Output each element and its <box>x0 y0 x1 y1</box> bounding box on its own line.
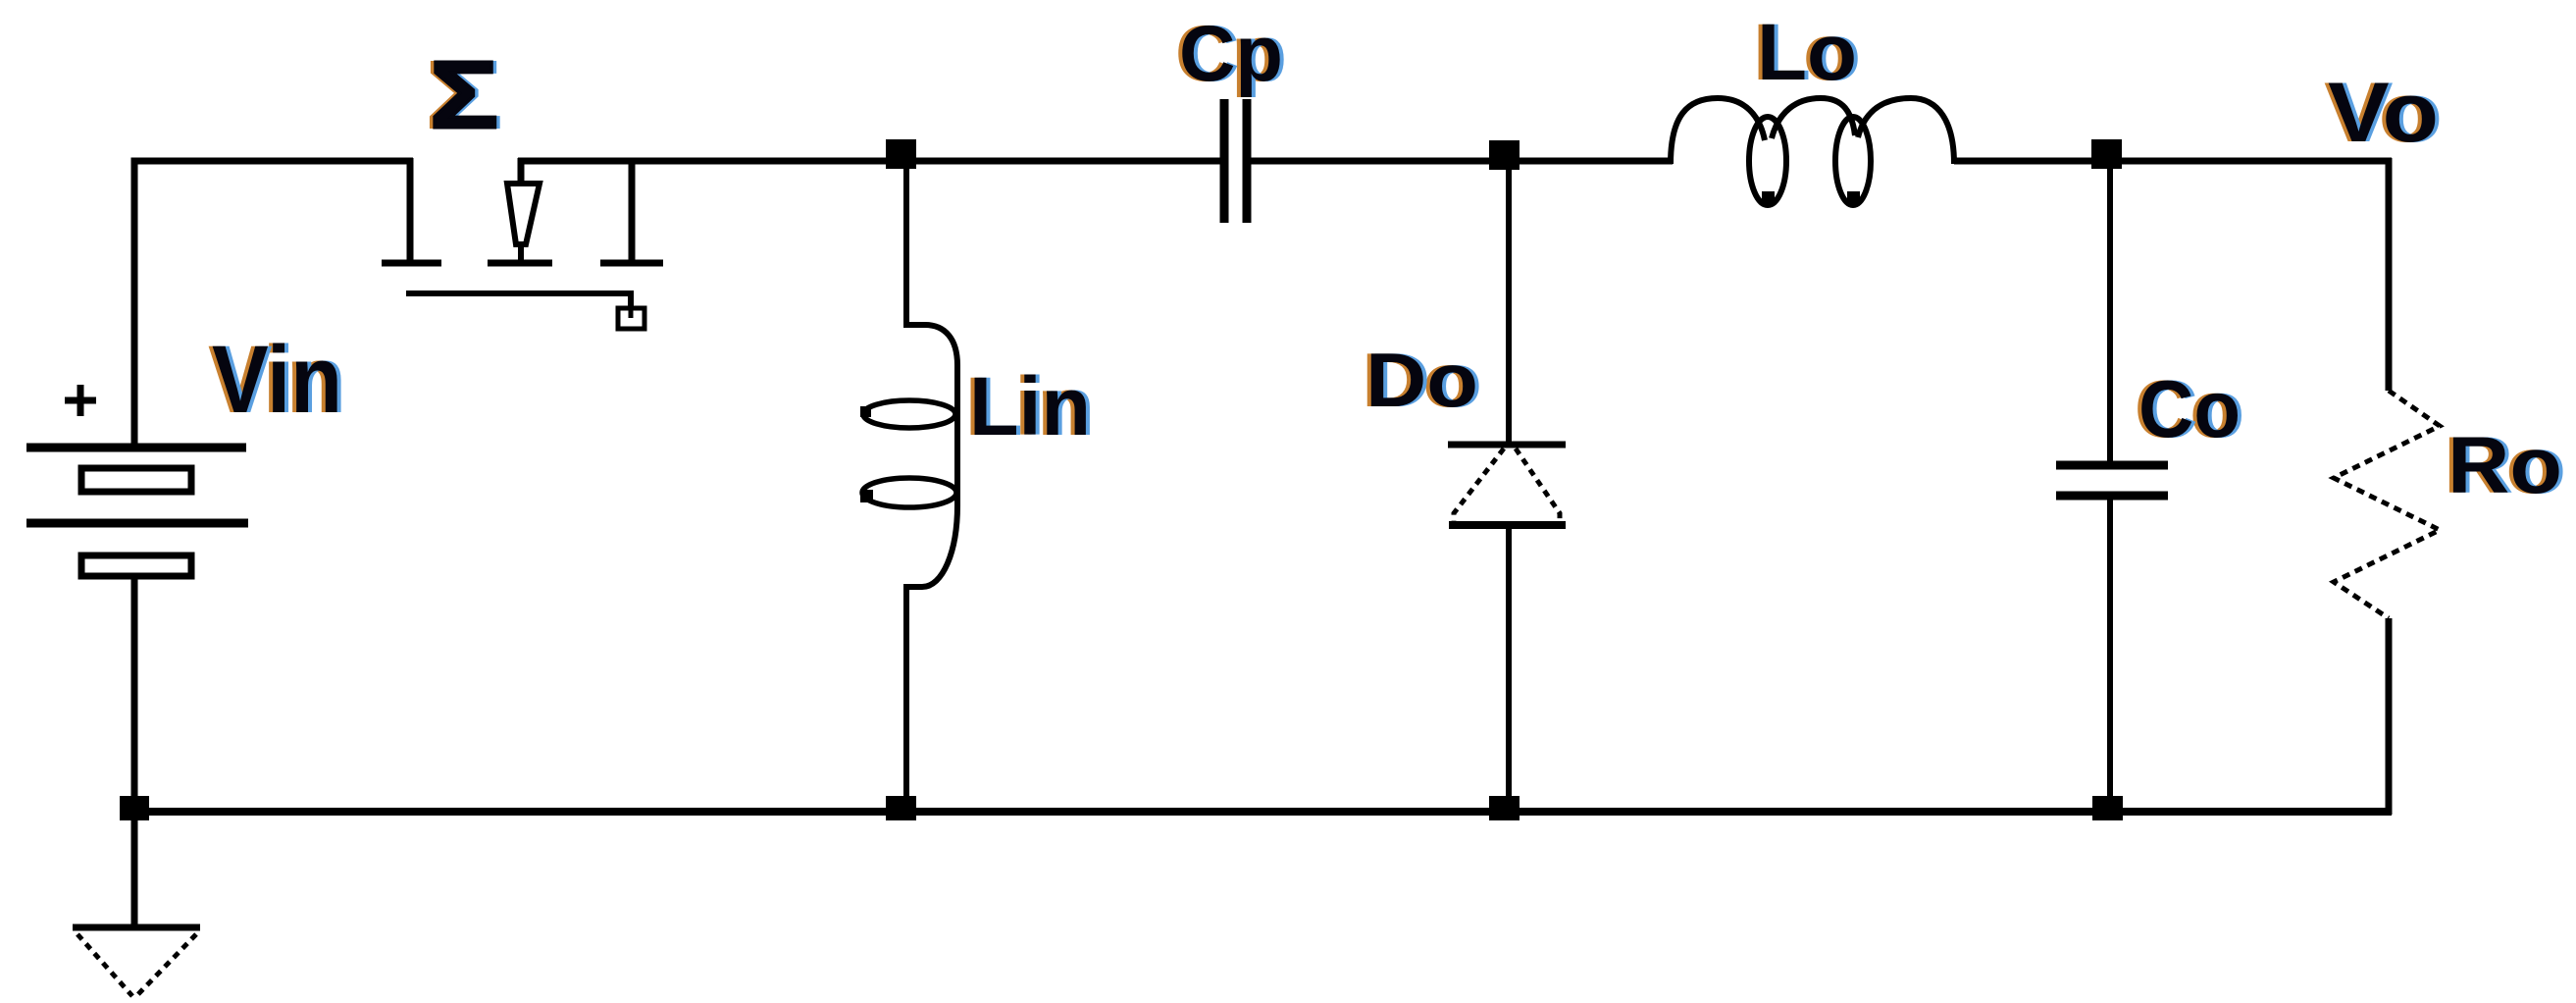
inductor Lo <box>1671 98 1954 205</box>
svg-text:Co: Co <box>2138 363 2241 454</box>
label Σ (switch) <box>426 41 502 148</box>
wire: Vin battery negative lead to bottom rail <box>131 576 138 812</box>
body arrow funnel <box>507 184 540 244</box>
svg-text:Do: Do <box>1365 337 1478 423</box>
wire: Lin bottom lead <box>903 587 909 812</box>
node: junction Lin top <box>886 139 916 169</box>
body stub bottom <box>518 244 524 260</box>
svg-text:Ro: Ro <box>2447 421 2562 510</box>
svg-text:Vin: Vin <box>212 326 342 433</box>
svg-text:Σ: Σ <box>430 41 498 148</box>
battery Vin <box>26 448 248 576</box>
label Ro <box>2444 421 2566 510</box>
wire: Co top lead <box>2107 167 2113 461</box>
wire: Vin positive lead up and right to MOSFET drain <box>134 161 413 444</box>
node: junction battery bottom <box>120 796 149 820</box>
node: junction Do top <box>1489 140 1520 170</box>
drain stub <box>407 158 414 263</box>
svg-text:Lo: Lo <box>1757 8 1857 97</box>
label Vo <box>2324 66 2443 160</box>
drain bar <box>382 260 441 267</box>
source bar <box>600 260 663 267</box>
wire: Co bottom lead <box>2107 500 2113 812</box>
triangle right side (dotted) <box>1516 449 1560 522</box>
resistor Ro (zigzag, dotted) <box>2334 391 2440 618</box>
wire: top rail from MOSFET source to Cp left plate <box>518 158 1220 165</box>
diode Do <box>1448 445 1566 525</box>
gate terminal box <box>618 308 644 329</box>
node Vo: output corner wire down to Ro <box>2386 158 2393 391</box>
anode base bar <box>1449 521 1566 529</box>
svg-text:Cp: Cp <box>1179 10 1283 98</box>
label Do <box>1362 337 1482 423</box>
svg-text:Lin: Lin <box>969 360 1091 452</box>
source stub <box>629 158 636 263</box>
triangle left side (dotted) <box>1454 449 1504 522</box>
wire: Do anode lead to bottom rail <box>1506 528 1512 812</box>
body stub top <box>518 158 525 182</box>
body bar <box>488 260 552 267</box>
node: junction Lin bottom <box>886 796 916 820</box>
capacitor Cp <box>1224 99 1247 223</box>
svg-text:Vo: Vo <box>2328 66 2439 160</box>
label Lo <box>1753 8 1861 97</box>
plus sign (battery polarity) <box>65 385 96 416</box>
wire: Do cathode lead from top rail <box>1506 167 1512 442</box>
label Vin <box>208 326 346 433</box>
ground <box>73 817 200 996</box>
node: junction Co top <box>2091 139 2122 169</box>
label Cp <box>1175 10 1287 98</box>
wire: Lin top lead <box>903 167 909 326</box>
node: junction Do bottom <box>1489 796 1520 820</box>
transistor Q1 (MOSFET switch) <box>382 158 663 329</box>
label Co <box>2135 363 2244 454</box>
wire: Ro bottom lead to bottom rail corner <box>2386 618 2393 815</box>
cathode bar <box>1448 442 1566 449</box>
wire: top rail from Cp right plate to Lo <box>1251 158 1673 165</box>
label Lin <box>965 360 1095 452</box>
gate plate <box>406 290 634 296</box>
node: junction Co bottom <box>2092 796 2123 820</box>
wire: top rail from Lo to output corner <box>1954 158 2392 165</box>
wire: bottom rail (ground return) <box>130 808 2392 816</box>
inductor Lin <box>860 325 957 587</box>
gate lead <box>628 293 634 316</box>
capacitor Co <box>2056 465 2168 496</box>
